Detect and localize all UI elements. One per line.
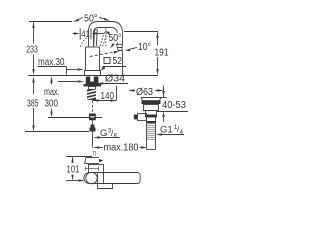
svg-text:40-53: 40-53 xyxy=(162,100,186,111)
side view: body lower xyxy=(98,184,113,189)
square-52 leader arrow xyxy=(101,67,104,68)
max.300 bottom anchor line xyxy=(48,117,102,119)
waste upper body xyxy=(146,111,157,118)
outlet 10deg dash-dot reference line xyxy=(90,51,120,57)
deck line xyxy=(28,75,158,77)
max.30 arrow and deck lower line xyxy=(58,80,84,82)
dimension max.300 line xyxy=(50,76,52,117)
mounting washer (dark) xyxy=(84,84,102,87)
svg-text:41: 41 xyxy=(81,29,90,40)
dimension 41 xyxy=(73,29,105,40)
dimension 101 line xyxy=(71,157,73,180)
svg-text:4: 4 xyxy=(180,130,184,136)
svg-text:Ø34: Ø34 xyxy=(105,74,125,85)
spout outer contour xyxy=(89,22,123,48)
svg-text:101: 101 xyxy=(67,165,80,176)
label 50 deg (spout swivel) xyxy=(108,33,122,43)
dimension 233 line xyxy=(32,22,34,75)
svg-text:191: 191 xyxy=(155,48,169,59)
rod segment xyxy=(92,121,94,127)
dash-dot centerline at pin right xyxy=(105,29,107,47)
50deg left leader arrow xyxy=(73,18,83,22)
side view: dimension 101 anchors xyxy=(66,156,92,158)
label G1-1/4 xyxy=(160,125,184,137)
hose end line xyxy=(92,132,94,148)
pop-up rod (dashed) xyxy=(92,101,94,114)
svg-text:52: 52 xyxy=(113,56,123,67)
handle pin (solid) xyxy=(94,30,98,46)
dia-63 right arrow and tick xyxy=(155,86,164,98)
385 bottom anchor line xyxy=(25,131,89,133)
waste flange xyxy=(141,98,161,105)
side view: body edges through spout bar xyxy=(97,173,99,184)
extension line outlet level (191 anchor) xyxy=(124,31,158,33)
dimension 385 line xyxy=(32,76,34,131)
dimension max.180 xyxy=(93,146,147,148)
label square-52 xyxy=(104,58,110,64)
dimension 140 extension line xyxy=(116,86,118,101)
base plate xyxy=(85,71,101,76)
50deg right leader arrow xyxy=(99,18,110,21)
side view: lever handle xyxy=(85,158,104,164)
dimension 140 xyxy=(93,99,117,101)
svg-text:max.: max. xyxy=(44,87,60,98)
extension line spout-top level (233 anchor) xyxy=(29,21,72,23)
label G3/8 xyxy=(100,128,118,140)
side view: spout end circle xyxy=(86,172,97,183)
svg-text:300: 300 xyxy=(45,99,59,110)
dimension 40-53 xyxy=(157,87,188,123)
handle pin (tilted, dash-dot) xyxy=(100,32,107,47)
outlet extension line to deck xyxy=(122,51,124,76)
threaded shank xyxy=(89,87,96,90)
side view: small ticks above spout xyxy=(85,167,98,172)
svg-text:140: 140 xyxy=(101,91,115,102)
svg-text:233: 233 xyxy=(26,45,38,56)
spout inner contour xyxy=(94,28,118,48)
faucet body xyxy=(86,47,100,71)
side view: body upper xyxy=(89,164,104,173)
dia-63 left arrow xyxy=(128,89,135,91)
10deg leader arrow xyxy=(125,48,138,52)
50deg swivel upper leader arrow xyxy=(105,31,111,35)
svg-text:7): 7) xyxy=(92,151,97,157)
G3/8 connector (dark) xyxy=(91,125,95,128)
svg-text:Ø63: Ø63 xyxy=(136,87,153,98)
svg-text:10°: 10° xyxy=(138,42,151,53)
waste tube xyxy=(147,117,156,150)
spout outlet xyxy=(117,44,123,50)
svg-text:max.180: max.180 xyxy=(104,143,139,154)
side view: spout bar xyxy=(84,173,140,184)
mounting nut (dark) xyxy=(86,77,99,85)
dimension 191 line xyxy=(156,32,158,75)
hose fitting xyxy=(89,114,96,121)
max.30 arrow to base top xyxy=(67,68,85,70)
50deg swivel lower leader arrow xyxy=(110,43,115,48)
flexible supply hoses (hatched) xyxy=(87,90,96,101)
svg-text:8: 8 xyxy=(114,134,118,140)
waste seal block xyxy=(144,105,159,111)
svg-text:G1: G1 xyxy=(160,125,173,136)
handle travel dashed arc xyxy=(81,38,88,48)
pop-up pivot xyxy=(134,114,147,121)
svg-text:50°: 50° xyxy=(84,14,98,25)
svg-text:385: 385 xyxy=(27,99,39,110)
svg-text:50°: 50° xyxy=(109,33,122,44)
